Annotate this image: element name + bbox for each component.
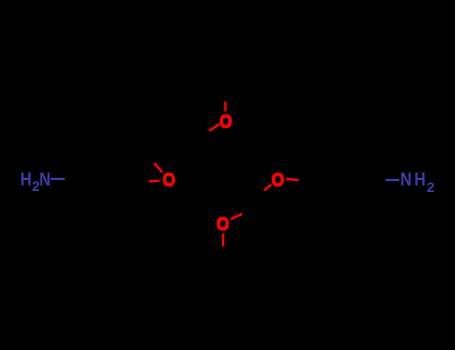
svg-text:H: H [20,169,31,189]
bond O4-acetalC (oxygen half, red, up-right diagonal) [231,214,242,219]
svg-text:N: N [400,170,411,190]
bond O3-acetalC (oxygen half, red, down-left diagonal) [264,185,272,191]
bond acetalC-O3 (carbon half, black) [253,190,264,199]
bond acetalC-O4 (carbon half, black) [242,209,253,214]
svg-text:N: N [39,169,50,189]
chain central C - acetal C (black) [193,142,253,205]
bond C-N right (nitrogen half, blue) [386,179,400,181]
bond CH3-O4 (carbon half, black) [222,246,225,259]
methoxy O4 label [219,219,228,229]
bond centralC-O2 (carbon half, black) [193,131,209,142]
svg-text:2: 2 [427,180,435,196]
bond CH2-O1 (carbon half, black) [141,148,155,163]
ether O3 label [274,175,283,185]
svg-text:H: H [414,170,425,190]
bond O1-CH2 (oxygen half, red, up-left diagonal) [154,163,162,172]
bond N-C left (nitrogen half, blue) [51,178,65,180]
left benzene ring (carbon skeleton, black on black) [79,153,139,205]
ether O1 label [165,174,174,184]
bond O2-CH3 (oxygen half, red, vertical) [224,102,226,111]
chain CH2 - central C (black) [141,142,193,148]
methoxy O2 label [221,116,230,126]
bond O3-ring (carbon half, black) [299,180,312,181]
bond CH3-O2 (carbon half, black) [224,92,227,102]
right benzene ring (carbon skeleton, black on black) [312,156,372,208]
bond ring-N right (carbon half, black) [372,180,386,181]
bond N-ring (carbon half, black) [64,177,78,180]
bond O4-CH3 (oxygen half, red, vertical down) [222,234,224,247]
bond ring-O1 (carbon half, black) [139,180,149,183]
bond O1-ring (oxygen half, red, horizontal) [149,180,160,183]
bond O3-ring (oxygen half, red, horizontal right) [286,179,299,180]
bond O2-C (oxygen half, red, down-left diagonal) [209,124,219,131]
